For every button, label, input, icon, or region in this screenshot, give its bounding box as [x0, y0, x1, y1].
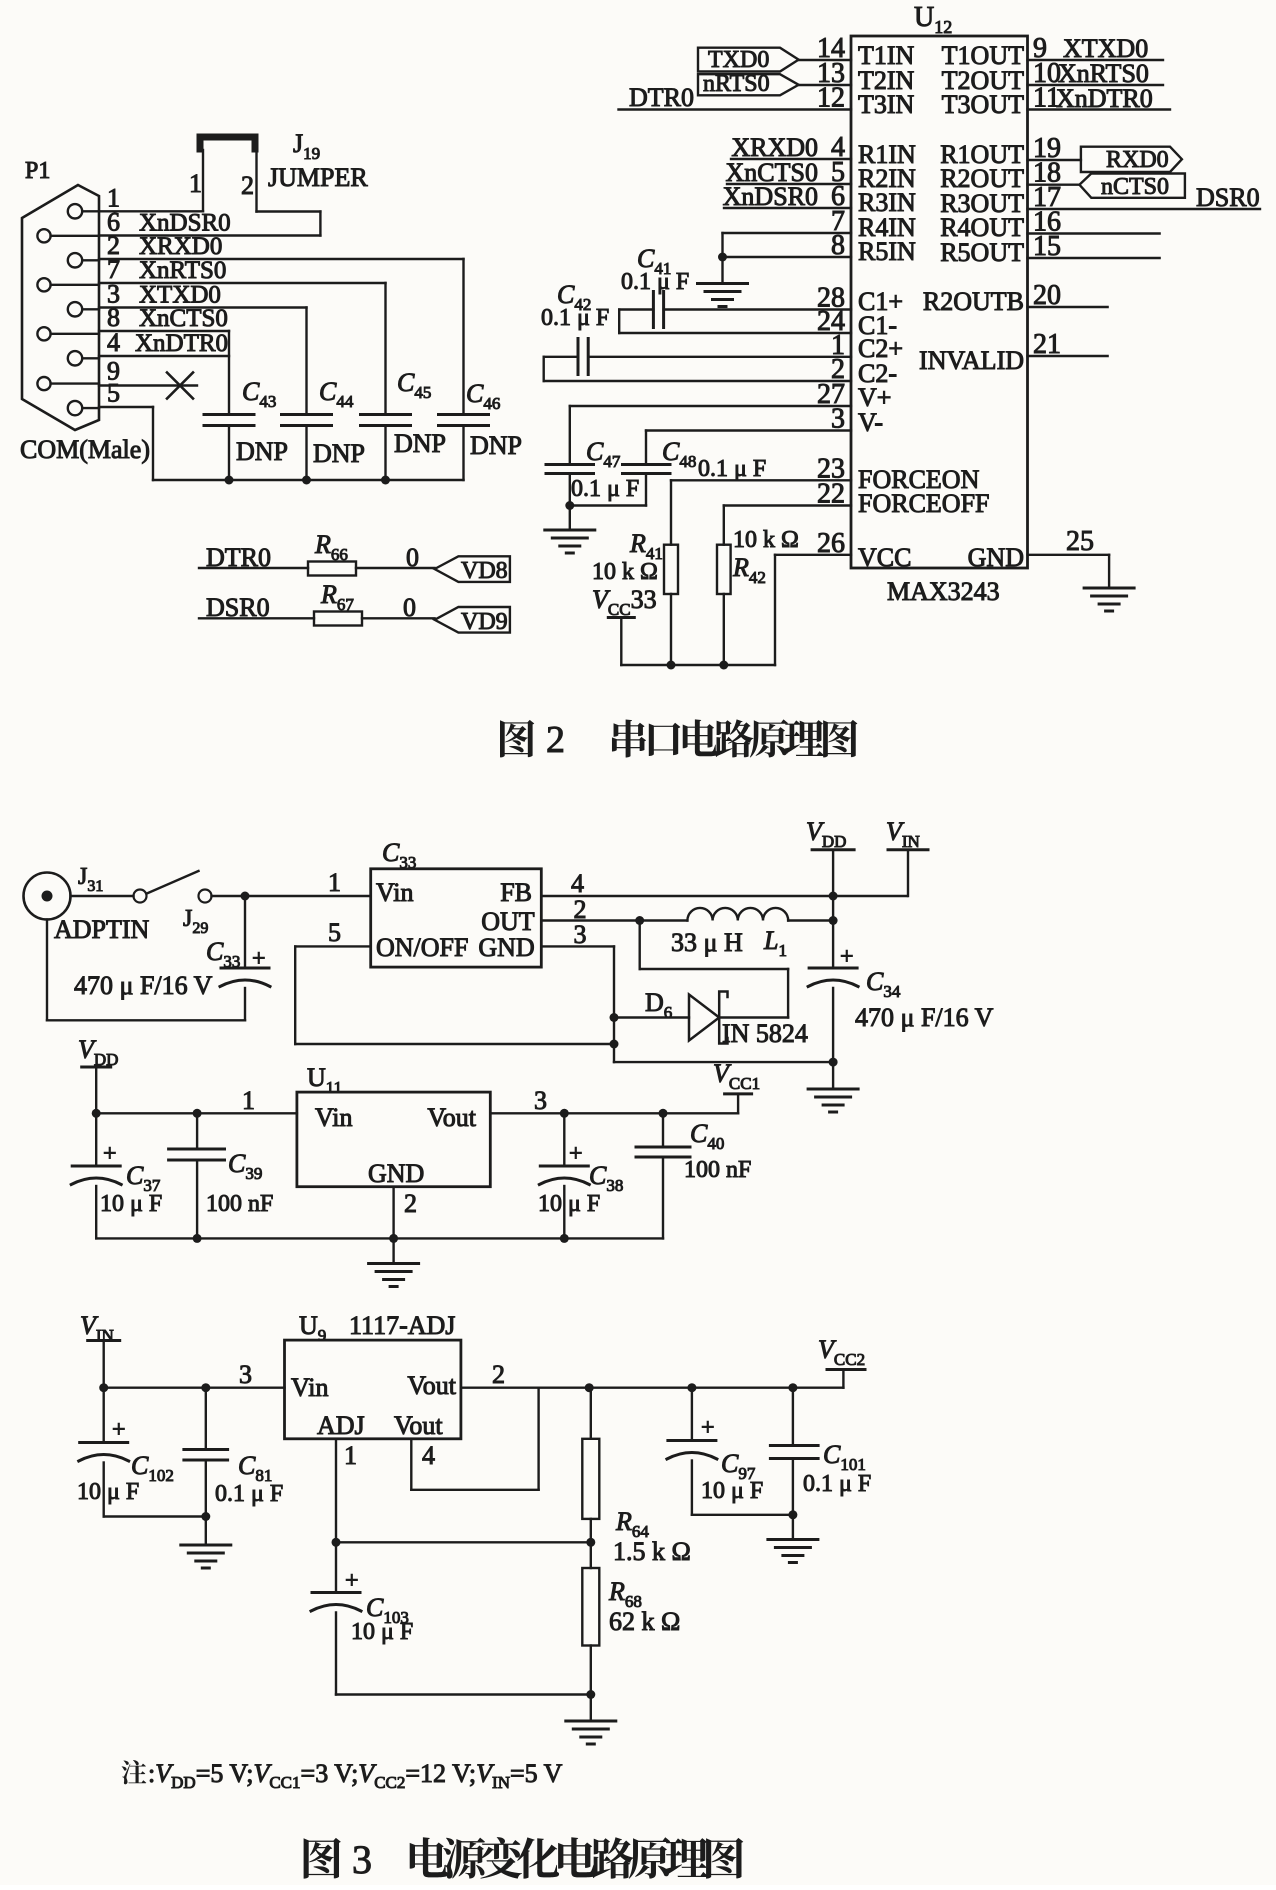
svg-text:D6: D6	[645, 988, 672, 1022]
svg-text:R42: R42	[732, 553, 766, 587]
svg-text:GND: GND	[478, 933, 534, 962]
svg-text:C48: C48	[662, 437, 696, 471]
svg-text:R5IN: R5IN	[858, 237, 916, 266]
svg-text:nRTS0: nRTS0	[703, 71, 770, 97]
svg-text:VCC1: VCC1	[713, 1059, 760, 1093]
svg-text:VCC: VCC	[858, 543, 911, 572]
svg-text:R2OUTB: R2OUTB	[923, 287, 1024, 316]
svg-text:IN 5824: IN 5824	[722, 1019, 808, 1048]
svg-text:MAX3243: MAX3243	[887, 577, 1000, 606]
svg-text:1: 1	[242, 1086, 255, 1115]
svg-text:C33: C33	[206, 937, 240, 971]
svg-text:C45: C45	[397, 368, 431, 402]
svg-text:GND: GND	[368, 1159, 424, 1188]
svg-text:12: 12	[817, 83, 845, 114]
svg-text:2: 2	[546, 719, 565, 761]
svg-text:0: 0	[406, 543, 419, 572]
svg-text:XRXD0: XRXD0	[139, 233, 222, 260]
svg-text:10 μ F: 10 μ F	[100, 1191, 162, 1217]
svg-text:VDD: VDD	[806, 817, 846, 851]
svg-text:3: 3	[239, 1360, 252, 1389]
svg-text:C34: C34	[866, 967, 901, 1001]
svg-text:DNP: DNP	[470, 431, 522, 460]
svg-text:+: +	[252, 946, 266, 972]
svg-text:T3IN: T3IN	[858, 90, 915, 119]
svg-text:J19: J19	[293, 129, 320, 163]
svg-text:0.1 μ F: 0.1 μ F	[571, 476, 639, 502]
svg-text:2: 2	[492, 1360, 505, 1389]
svg-text:0.1 μ F: 0.1 μ F	[803, 1471, 871, 1497]
svg-text:FORCEOFF: FORCEOFF	[858, 489, 990, 518]
svg-text:T3OUT: T3OUT	[942, 90, 1024, 119]
svg-text:C38: C38	[589, 1161, 623, 1195]
svg-text:COM(Male): COM(Male)	[20, 435, 150, 464]
svg-text:2: 2	[241, 171, 254, 200]
svg-text:470 μ F/16 V: 470 μ F/16 V	[74, 971, 213, 1000]
svg-text:25: 25	[1066, 526, 1094, 557]
svg-text:1: 1	[189, 169, 202, 198]
svg-text:R64: R64	[615, 1507, 649, 1541]
svg-text:VDD: VDD	[78, 1035, 118, 1069]
svg-text:VD9: VD9	[461, 609, 508, 635]
svg-text:33 μ H: 33 μ H	[671, 928, 743, 957]
svg-text:R66: R66	[314, 530, 348, 564]
svg-text:Vout: Vout	[394, 1411, 443, 1440]
svg-text:R5OUT: R5OUT	[940, 238, 1024, 267]
svg-text:VCC33: VCC33	[592, 585, 657, 619]
svg-text:+: +	[103, 1141, 117, 1167]
svg-text:Vin: Vin	[291, 1373, 328, 1402]
svg-text:DNP: DNP	[313, 439, 365, 468]
svg-text:V-: V-	[858, 408, 883, 437]
svg-text:5: 5	[107, 379, 120, 408]
svg-text:ADJ: ADJ	[317, 1411, 365, 1440]
svg-text:1: 1	[328, 868, 341, 897]
svg-text:C40: C40	[690, 1119, 724, 1153]
svg-text:ADPTIN: ADPTIN	[54, 915, 150, 944]
svg-text:C37: C37	[126, 1161, 161, 1195]
svg-text:1.5 k Ω: 1.5 k Ω	[613, 1537, 691, 1566]
svg-text:XnDSR0: XnDSR0	[723, 182, 818, 211]
svg-text:1: 1	[344, 1441, 357, 1470]
svg-text:+: +	[701, 1415, 715, 1441]
svg-text:U9: U9	[299, 1311, 326, 1345]
svg-text:U11: U11	[307, 1063, 342, 1097]
svg-text:Vin: Vin	[315, 1103, 352, 1132]
svg-text:VCC2: VCC2	[818, 1335, 865, 1369]
svg-text:DSR0: DSR0	[1196, 183, 1260, 212]
svg-text:10 k Ω: 10 k Ω	[592, 559, 658, 585]
svg-text:+: +	[569, 1141, 583, 1167]
svg-text:4: 4	[107, 328, 120, 357]
svg-text:62 k Ω: 62 k Ω	[609, 1607, 680, 1636]
svg-text:C81: C81	[238, 1451, 272, 1485]
svg-text:ON/OFF: ON/OFF	[376, 933, 468, 962]
svg-text:C46: C46	[466, 379, 500, 413]
svg-text:DTR0: DTR0	[629, 83, 694, 112]
svg-text:100 nF: 100 nF	[206, 1191, 273, 1217]
svg-text:XnDTR0: XnDTR0	[135, 330, 228, 357]
svg-text:470 μ F/16 V: 470 μ F/16 V	[855, 1003, 994, 1032]
svg-text:VIN: VIN	[886, 817, 920, 851]
svg-text:J31: J31	[78, 864, 103, 895]
svg-text:DNP: DNP	[394, 429, 446, 458]
svg-text:Vout: Vout	[427, 1103, 476, 1132]
svg-text:10 k Ω: 10 k Ω	[733, 527, 799, 553]
svg-text::VDD=5 V;VCC1=3 V;VCC2=12 V;VI: :VDD=5 V;VCC1=3 V;VCC2=12 V;VIN=5 V	[148, 1759, 563, 1792]
svg-text:15: 15	[1033, 231, 1061, 262]
svg-text:3: 3	[574, 920, 587, 949]
svg-text:2: 2	[404, 1189, 417, 1218]
svg-text:22: 22	[817, 479, 845, 510]
svg-text:0: 0	[403, 593, 416, 622]
svg-text:4: 4	[422, 1441, 435, 1470]
svg-text:0.1 μ F: 0.1 μ F	[541, 305, 609, 331]
svg-text:C47: C47	[586, 437, 621, 471]
svg-text:8: 8	[831, 230, 845, 261]
svg-text:+: +	[112, 1417, 126, 1443]
svg-text:C43: C43	[242, 377, 276, 411]
svg-text:100 nF: 100 nF	[684, 1157, 751, 1183]
svg-text:XnDTR0: XnDTR0	[1056, 84, 1153, 113]
svg-text:FB: FB	[500, 878, 532, 907]
svg-text:TXD0: TXD0	[708, 47, 769, 73]
svg-text:RXD0: RXD0	[1106, 147, 1169, 173]
svg-text:C101: C101	[823, 1440, 866, 1474]
svg-text:JUMPER: JUMPER	[268, 163, 368, 192]
svg-text:C39: C39	[228, 1149, 262, 1183]
svg-text:C33: C33	[382, 838, 416, 872]
svg-text:0.1 μ F: 0.1 μ F	[698, 456, 766, 482]
svg-text:R41: R41	[629, 529, 663, 563]
svg-text:5: 5	[328, 918, 341, 947]
svg-text:VD8: VD8	[461, 558, 508, 584]
svg-text:20: 20	[1033, 280, 1061, 311]
svg-text:4: 4	[571, 869, 584, 898]
svg-text:10 μ F: 10 μ F	[351, 1619, 413, 1645]
svg-text:10 μ F: 10 μ F	[77, 1479, 139, 1505]
svg-text:26: 26	[817, 528, 845, 559]
svg-text:Vin: Vin	[376, 878, 413, 907]
svg-text:C44: C44	[319, 377, 354, 411]
svg-text:U12: U12	[914, 2, 952, 37]
svg-text:0.1 μ F: 0.1 μ F	[215, 1481, 283, 1507]
svg-text:R67: R67	[320, 580, 354, 614]
svg-text:0.1 μ F: 0.1 μ F	[621, 269, 689, 295]
svg-text:OUT: OUT	[481, 907, 535, 936]
svg-text:R68: R68	[608, 1577, 642, 1611]
svg-text:3: 3	[831, 404, 845, 435]
svg-text:INVALID: INVALID	[919, 346, 1024, 375]
svg-text:21: 21	[1033, 329, 1061, 360]
svg-text:J29: J29	[183, 906, 208, 937]
svg-text:nCTS0: nCTS0	[1101, 174, 1169, 200]
svg-text:10 μ F: 10 μ F	[538, 1191, 600, 1217]
svg-text:3: 3	[352, 1837, 372, 1882]
svg-text:1117-ADJ: 1117-ADJ	[349, 1311, 455, 1340]
svg-text:3: 3	[534, 1086, 547, 1115]
svg-text:+: +	[840, 944, 854, 970]
svg-text:P1: P1	[25, 158, 50, 184]
svg-text:XnCTS0: XnCTS0	[139, 305, 228, 332]
svg-text:+: +	[345, 1568, 359, 1594]
svg-text:DNP: DNP	[236, 437, 288, 466]
svg-text:10 μ F: 10 μ F	[701, 1478, 763, 1504]
svg-text:L1: L1	[763, 926, 787, 960]
svg-text:Vout: Vout	[407, 1371, 456, 1400]
svg-text:XnRTS0: XnRTS0	[139, 257, 226, 284]
svg-text:GND: GND	[968, 543, 1024, 572]
